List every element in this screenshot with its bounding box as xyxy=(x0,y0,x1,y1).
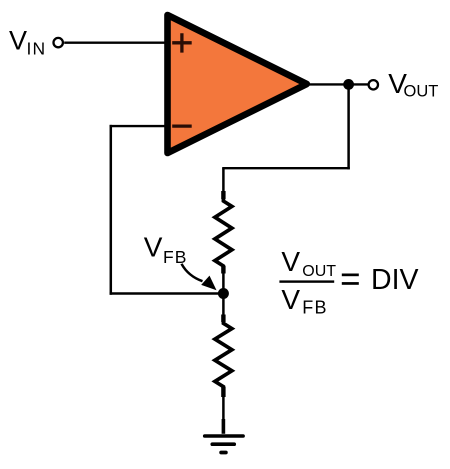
label V_OUT xyxy=(388,68,438,101)
node VFB junction xyxy=(218,288,229,299)
wire VFB node to resistor R2 xyxy=(222,294,225,319)
wire feedback top horizontal xyxy=(222,167,350,169)
resistor R2 xyxy=(215,315,232,398)
svg-text:OUT: OUT xyxy=(404,83,439,101)
formula numerator V_OUT xyxy=(281,246,336,280)
svg-text:IN: IN xyxy=(27,39,47,59)
wire output junction down xyxy=(347,84,350,169)
svg-text:FB: FB xyxy=(302,298,327,318)
svg-text:V: V xyxy=(144,232,163,263)
label V_FB xyxy=(144,232,188,267)
wire feedback bottom horizontal to VFB node xyxy=(110,292,224,294)
formula fraction bar xyxy=(279,280,334,282)
wire R2 bottom to ground xyxy=(222,394,225,434)
wire op-amp output xyxy=(300,83,369,85)
wire down to resistor R1 xyxy=(222,168,225,193)
junction node at VOUT xyxy=(343,79,354,90)
formula denominator V_FB xyxy=(281,284,327,318)
arrow from VFB label to node xyxy=(182,264,217,291)
wire - input horizontal xyxy=(110,125,168,127)
label V_IN xyxy=(9,25,46,58)
svg-text:OUT: OUT xyxy=(302,263,336,280)
resistor R1 xyxy=(215,191,232,274)
op-amp - input symbol xyxy=(172,124,192,127)
ground symbol xyxy=(205,419,243,453)
wire VIN to op-amp + input xyxy=(64,42,168,44)
terminal VIN open circle xyxy=(54,38,63,47)
svg-text:V: V xyxy=(9,25,27,55)
formula equals sign xyxy=(342,274,359,285)
wire R1 bottom to VFB node xyxy=(222,270,225,294)
svg-text:FB: FB xyxy=(163,247,187,267)
svg-text:DIV: DIV xyxy=(371,264,419,296)
svg-text:V: V xyxy=(281,284,300,315)
terminal VOUT open circle xyxy=(369,80,378,89)
op-amp U1 xyxy=(168,15,307,153)
wire feedback left vertical xyxy=(110,125,113,295)
op-amp + input symbol xyxy=(172,33,192,52)
svg-text:V: V xyxy=(281,246,300,277)
